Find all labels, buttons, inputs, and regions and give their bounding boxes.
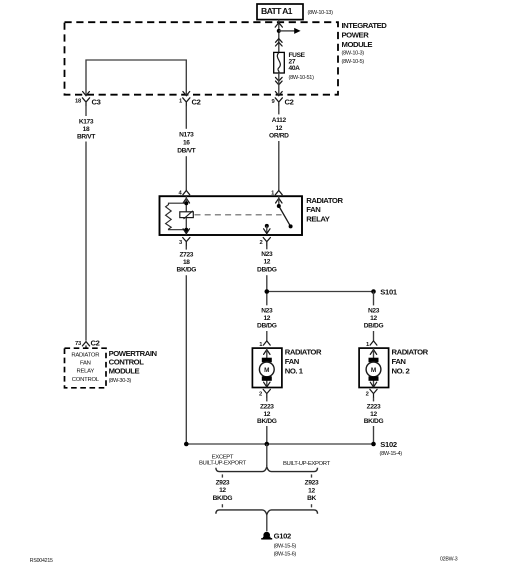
svg-text:BUILT-UP-EXPORT: BUILT-UP-EXPORT [283, 461, 331, 467]
relay switch common wire from pin 1 [278, 196, 280, 206]
svg-text:RADIATOR: RADIATOR [285, 347, 322, 356]
integrated power module U-IPM dashed boundary [65, 22, 339, 95]
svg-text:N23: N23 [261, 251, 273, 258]
svg-text:S102: S102 [380, 440, 397, 449]
pin label 1 and connector name C2 [179, 98, 201, 107]
radiator fan no.2 motor M2 pin 1 connector [366, 341, 377, 355]
battery feed BATT A1 [257, 4, 303, 20]
motor M1 pin 2 connector [259, 389, 270, 397]
label RADIATOR FAN RELAY [306, 196, 343, 224]
svg-text:RS004215: RS004215 [30, 558, 53, 564]
wire Z223 fan 2 to splice S102 [373, 398, 375, 444]
wire label N23 12 DB/DG fan 1 [257, 308, 277, 330]
wire label K173 18 BR/VT [77, 119, 95, 141]
svg-text:N173: N173 [179, 132, 194, 139]
wire label Z223 12 BK/DG fan 2 [364, 404, 384, 426]
svg-text:Z223: Z223 [260, 404, 274, 411]
relay pin 2 connector [259, 229, 270, 246]
wire S102 to export split [266, 444, 268, 466]
svg-text:CONTROL: CONTROL [109, 358, 145, 367]
svg-text:MODULE: MODULE [342, 40, 373, 49]
svg-text:(8W-15-6): (8W-15-6) [274, 551, 297, 557]
wire N23 to radiator fan no.1 [266, 305, 268, 340]
label INTEGRATED POWER MODULE [342, 21, 388, 65]
svg-text:BK/DG: BK/DG [177, 267, 197, 274]
node coil top junction [184, 201, 188, 205]
relay coil branch wire [185, 196, 187, 235]
svg-text:DB/VT: DB/VT [177, 148, 195, 155]
svg-text:(8W-10-3): (8W-10-3) [342, 51, 365, 57]
motor M2 pin 2 connector [366, 389, 377, 397]
svg-text:(8W-10-5): (8W-10-5) [342, 59, 365, 65]
svg-text:S101: S101 [380, 287, 398, 296]
powertrain control module U-PCM dashed box [65, 348, 107, 388]
wire BATT A1 to fuse [278, 20, 280, 53]
wire label Z923 12 BK (built-up-export) [305, 480, 319, 502]
node pin 2 contact [265, 224, 269, 228]
svg-text:N23: N23 [368, 308, 380, 315]
value label FUSE 27 40A (8W-10-51) [289, 52, 315, 81]
svg-text:(8W-10-51): (8W-10-51) [289, 75, 315, 81]
svg-text:12: 12 [370, 411, 377, 418]
svg-text:(8W-15-4): (8W-15-4) [380, 451, 403, 457]
svg-text:73: 73 [75, 341, 82, 347]
label G102 (8W-15-5) (8W-15-6) [274, 531, 297, 557]
label RADIATOR FAN NO. 1 [285, 347, 322, 375]
node splice S102 [371, 442, 376, 447]
svg-text:C2: C2 [91, 338, 100, 347]
svg-text:M: M [371, 367, 376, 374]
svg-text:C3: C3 [92, 98, 101, 107]
arrow into BATT A1 at IPM boundary [275, 23, 282, 28]
svg-text:G102: G102 [274, 531, 291, 540]
connector C2 pin 9 (arrow + socket) [275, 92, 282, 106]
connector C2 pin 1 (arrow + socket) [183, 92, 190, 106]
wire label Z723 18 BK/DG [177, 251, 197, 273]
svg-text:2: 2 [259, 240, 262, 246]
relay actuation dashed link [195, 214, 282, 216]
label RADIATOR FAN RELAY CONTROL inside PCM [71, 352, 99, 383]
wire N23 splice S101 to radiator fan no.2 [373, 292, 375, 341]
node junction Z723 at S102 bar [184, 442, 189, 447]
svg-text:A112: A112 [272, 117, 287, 124]
label EXCEPT BUILT-UP-EXPORT [199, 455, 247, 467]
fuse bus chevrons above fuse 27 [276, 39, 283, 46]
wire N173 from C2-1 to relay pin 4 [185, 106, 187, 190]
wire label Z923 12 BK/DG (except built-up-export) [213, 479, 233, 502]
svg-text:12: 12 [275, 125, 282, 132]
svg-text:MODULE: MODULE [109, 367, 140, 376]
svg-text:FAN: FAN [392, 357, 407, 366]
svg-text:18: 18 [183, 259, 190, 266]
svg-text:12: 12 [263, 259, 270, 266]
svg-text:K173: K173 [79, 119, 94, 126]
svg-text:RADIATOR: RADIATOR [392, 347, 429, 356]
wire label A112 12 OR/RD [269, 117, 289, 139]
svg-text:C2: C2 [285, 98, 294, 107]
wire Z723 relay pin 3 to splice S102 [185, 246, 187, 444]
svg-text:12: 12 [219, 487, 226, 494]
svg-text:Z223: Z223 [367, 404, 381, 411]
wire tap to other IPM circuits with arrow [279, 28, 301, 34]
wire Z223 fan 1 to splice S102 [266, 398, 268, 444]
svg-text:RADIATOR: RADIATOR [306, 196, 343, 205]
svg-text:DB/DG: DB/DG [257, 266, 277, 273]
wire A112 from C2-9 to relay pin 1 [278, 106, 280, 190]
svg-text:12: 12 [370, 315, 377, 322]
svg-text:2: 2 [259, 391, 262, 397]
wire stub right branch upper [311, 474, 313, 477]
svg-text:12: 12 [263, 411, 270, 418]
node junction at fan 1 branch [265, 289, 270, 294]
svg-text:Z923: Z923 [305, 480, 319, 487]
svg-text:CONTROL: CONTROL [72, 377, 100, 383]
svg-text:BATT A1: BATT A1 [261, 6, 293, 16]
splice S101 crossbar wire [267, 291, 374, 293]
brace wire merge bottom [216, 510, 318, 515]
svg-text:BUILT-UP-EXPORT: BUILT-UP-EXPORT [199, 461, 247, 467]
motor M2 internals [366, 348, 381, 387]
powertrain control module connector C2 pin 73 [75, 338, 100, 348]
svg-text:DB/DG: DB/DG [364, 323, 384, 330]
svg-text:12: 12 [263, 315, 270, 322]
svg-text:(8W-15-5): (8W-15-5) [274, 543, 297, 549]
splice S102 crossbar wire [186, 443, 373, 445]
wire label N23 12 DB/DG fan 2 [364, 308, 384, 330]
svg-text:BR/VT: BR/VT [77, 134, 95, 141]
motor M1 internals [259, 348, 274, 387]
svg-text:40A: 40A [289, 65, 301, 72]
relay pin 3 connector [179, 229, 190, 246]
svg-text:FAN: FAN [285, 357, 300, 366]
svg-text:BK/DG: BK/DG [257, 418, 277, 425]
svg-text:BK/DG: BK/DG [364, 418, 384, 425]
radiator fan no.1 motor M1 pin 1 connector [259, 341, 270, 355]
radiator fan relay K-RFR outline [160, 196, 303, 235]
svg-text:FAN: FAN [80, 361, 91, 367]
svg-text:DB/DG: DB/DG [257, 323, 277, 330]
svg-text:(8W-30-3): (8W-30-3) [109, 378, 132, 384]
wire pin 2 contact to edge [266, 226, 268, 235]
pin label 18 and connector name C3 [75, 98, 101, 107]
wire merge to ground G102 [266, 515, 268, 531]
svg-text:N23: N23 [261, 308, 273, 315]
label RADIATOR FAN NO. 2 [392, 347, 429, 375]
svg-text:02BW-3: 02BW-3 [440, 556, 458, 562]
svg-text:18: 18 [83, 126, 90, 133]
svg-text:NO. 2: NO. 2 [392, 366, 410, 375]
svg-text:BK/DG: BK/DG [213, 495, 233, 502]
relay pin 1 connector [271, 190, 282, 203]
wire stub left branch upper [221, 474, 223, 477]
radiator fan motor M2 box [359, 348, 389, 387]
node coil bottom junction [184, 228, 188, 232]
svg-text:M: M [264, 367, 269, 374]
svg-text:FAN: FAN [306, 205, 321, 214]
relay coil resistor [166, 203, 187, 230]
svg-text:OR/RD: OR/RD [269, 132, 289, 139]
svg-text:18: 18 [75, 99, 82, 105]
svg-text:INTEGRATED: INTEGRATED [342, 21, 388, 30]
fuse bus chevrons below fuse 27 [276, 77, 283, 84]
wire label N173 16 DB/VT [177, 132, 195, 155]
wire stub right branch lower [311, 504, 313, 507]
svg-text:16: 16 [183, 140, 190, 147]
connector C3 pin 18 (arrow + socket) [82, 92, 89, 106]
node junction on battery feed [277, 29, 281, 33]
node junction fan 1 ground at S102 bar [265, 442, 270, 447]
node switch pivot [277, 204, 281, 208]
svg-text:NO. 1: NO. 1 [285, 366, 304, 375]
svg-text:Z923: Z923 [216, 479, 230, 486]
relay pin 4 connector [178, 190, 189, 203]
node splice S101 [371, 289, 376, 294]
svg-text:RADIATOR: RADIATOR [71, 352, 99, 358]
svg-text:RELAY: RELAY [76, 369, 94, 375]
pin label 9 and connector name C2 [271, 98, 293, 107]
ground G102 symbol [261, 532, 272, 539]
svg-text:BK: BK [307, 495, 316, 502]
wire N23 relay pin 2 to splice S101 [266, 246, 268, 305]
wire fuse to connector C2-9 [278, 73, 280, 96]
label S102 (8W-15-4) [380, 440, 403, 457]
wire label Z223 12 BK/DG fan 1 [257, 404, 277, 426]
relay switch blade [279, 206, 291, 226]
radiator fan motor M1 box [252, 348, 282, 387]
svg-text:Z723: Z723 [179, 251, 193, 258]
svg-text:RELAY: RELAY [306, 214, 329, 223]
wire label N23 12 DB/DG upper [257, 251, 277, 274]
IPM internal bus wire C3-18 to C2-1 [86, 60, 186, 96]
svg-text:(8W-10-13): (8W-10-13) [308, 10, 334, 16]
svg-text:2: 2 [366, 391, 369, 397]
wire K173 from C3-18 to PCM [85, 106, 87, 341]
node blade end [289, 224, 293, 228]
wire stub left branch lower [221, 504, 223, 507]
svg-text:POWER: POWER [342, 31, 370, 40]
fuse 27 40A [274, 52, 285, 73]
svg-text:C2: C2 [192, 98, 201, 107]
svg-text:12: 12 [308, 488, 315, 495]
brace wire split top [216, 467, 318, 472]
relay coil element [180, 211, 194, 219]
label POWERTRAIN CONTROL MODULE [109, 349, 158, 384]
